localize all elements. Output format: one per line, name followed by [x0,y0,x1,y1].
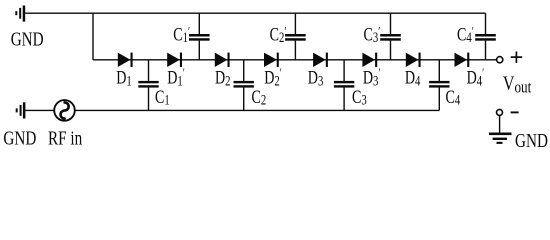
label C4' [457,23,474,45]
label GND top-left [11,27,44,50]
capacitor C3' [380,34,401,41]
label D2 [215,67,231,89]
wire C3' stub [390,13,392,60]
svg-text:D3′: D3′ [363,67,381,89]
svg-text:GND: GND [3,127,36,150]
label C1 [155,86,170,108]
label GND bottom-left [3,127,36,150]
label C3' [364,23,381,45]
wire C4 stub [438,60,440,111]
svg-text:GND: GND [515,129,548,152]
svg-text:D2′: D2′ [264,67,282,89]
diode D2 [215,53,230,67]
label C1' [173,23,190,45]
label D1' [167,67,185,89]
wire C1' stub [198,13,200,60]
capacitor C2' [285,34,306,41]
capacitor C1 [138,81,158,88]
diode D4 [406,53,421,67]
capacitor C3 [334,81,354,88]
wire bottom rail [25,109,439,111]
svg-text:RF in: RF in [48,127,82,150]
plus sign [511,52,523,64]
capacitor C4' [475,34,496,41]
wire left stub from top rail to diode row [92,13,94,60]
ground (top left) [15,6,25,22]
wire C1 stub [148,60,150,111]
wire C2' stub [294,13,296,60]
svg-text:D1′: D1′ [167,67,185,89]
label D1 [116,67,132,89]
svg-text:C2′: C2′ [270,23,287,45]
label D2' [264,67,282,89]
label RF in [48,127,82,150]
label C4 [446,86,461,108]
diode D2' [264,53,279,67]
label D3 [308,67,324,89]
label C3 [352,86,367,108]
label GND bottom-right [515,129,548,152]
diode D3 [313,53,328,67]
svg-text:C1′: C1′ [173,23,190,45]
capacitor C1' [189,34,210,41]
capacitor C4 [429,81,449,88]
wire top rail [25,12,485,14]
wire C3 stub [343,60,345,111]
label Vout [503,72,532,97]
diode D1' [167,53,182,67]
node - output terminal [497,109,503,115]
minus sign [511,111,519,113]
wire minus terminal to ground [499,115,501,132]
ground (bottom left) [16,102,26,118]
AC source (RF in) [54,100,75,121]
svg-text:C4′: C4′ [457,23,474,45]
svg-text:C3′: C3′ [364,23,381,45]
wire C4' stub [485,13,487,60]
ground (bottom right) [489,133,512,144]
svg-text:D4′: D4′ [467,67,485,89]
wire C2 stub [243,60,245,111]
diode D1 [118,53,133,67]
label D4 [405,67,421,89]
label C2' [270,23,287,45]
capacitor C2 [234,81,254,88]
wire diode row [93,59,497,61]
label D3' [363,67,381,89]
svg-text:GND: GND [11,27,44,50]
diode D4' [455,53,470,67]
node + output terminal [497,57,503,63]
label C2 [252,86,267,108]
diode D3' [362,53,377,67]
label D4' [467,67,485,89]
